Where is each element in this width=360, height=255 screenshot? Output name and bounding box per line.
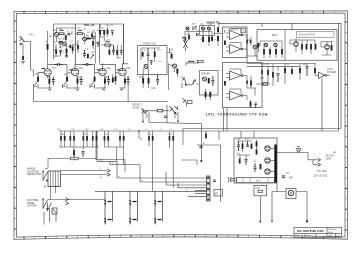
resistor R19 xyxy=(37,77,39,82)
terminal strip TS1 xyxy=(237,178,275,183)
tube V5 xyxy=(294,39,299,47)
capacitor C28 xyxy=(245,160,248,166)
wire aux line xyxy=(96,131,125,172)
capacitor C16 coupling xyxy=(54,63,63,66)
resistor R10c xyxy=(107,27,109,38)
wire V1 grid xyxy=(38,72,49,88)
resistor R66 xyxy=(96,131,98,147)
resistor R12b xyxy=(92,39,94,49)
diode D13 xyxy=(119,131,121,147)
label live xyxy=(100,169,102,180)
label V3 xyxy=(106,67,111,70)
tube V6 xyxy=(325,42,330,50)
transistor Q5 xyxy=(173,64,177,68)
socket V8 xyxy=(265,158,275,163)
potentiometer VR4 xyxy=(90,80,95,88)
diode D3 xyxy=(250,40,252,43)
svg-text:V1b: V1b xyxy=(79,67,84,70)
wire V4 grid xyxy=(116,73,119,76)
resistor R63 xyxy=(64,131,66,147)
capacitor C15 xyxy=(52,77,55,86)
box PA lower xyxy=(223,63,263,108)
capacitor C23 xyxy=(184,38,187,43)
svg-text:SELECTOR: SELECTOR xyxy=(27,172,41,176)
connector CN1 xyxy=(107,169,110,176)
node N1 xyxy=(138,130,142,141)
tube V1 xyxy=(42,68,52,78)
components D1 xyxy=(68,45,71,49)
label rect vals xyxy=(237,139,258,163)
wire jack left drop xyxy=(271,192,273,221)
svg-text:C14: C14 xyxy=(151,88,156,90)
wire plate rail xyxy=(48,64,128,73)
resistor R30 xyxy=(208,78,210,84)
label cn pins xyxy=(99,160,203,192)
svg-text:POWER: POWER xyxy=(327,71,336,74)
wire supply bus main xyxy=(59,130,338,132)
diode D11 xyxy=(92,131,94,147)
label V4 xyxy=(126,67,131,70)
resistor R20 xyxy=(48,76,50,88)
capacitor C9 xyxy=(120,50,123,55)
svg-text:SEND: SEND xyxy=(133,106,140,109)
diode D7 xyxy=(282,173,290,178)
capacitor C10b xyxy=(150,61,153,66)
diode D5 xyxy=(260,70,264,86)
label V2 xyxy=(79,67,84,70)
capacitor C35 xyxy=(254,103,257,108)
diode D2 xyxy=(246,37,248,46)
wire B+ drop V1 xyxy=(53,24,55,59)
svg-text:TR8 +24: TR8 +24 xyxy=(84,23,95,27)
resistor R52 xyxy=(272,72,274,86)
label lim xyxy=(327,68,336,74)
label PI xyxy=(201,72,210,75)
svg-text:V1a: V1a xyxy=(52,67,57,70)
wire fuse line xyxy=(48,159,96,169)
switch SW3 body xyxy=(52,198,69,215)
resistor R6b xyxy=(77,45,79,53)
resistor R46 xyxy=(301,40,303,54)
capacitor C9b xyxy=(97,42,100,47)
svg-text:FS2: FS2 xyxy=(256,188,261,190)
capacitor C22 xyxy=(199,146,202,148)
transistor Q7 xyxy=(203,77,207,81)
capacitor C30 xyxy=(82,152,85,158)
svg-text:100V: 100V xyxy=(326,158,332,161)
resistor R13 xyxy=(116,45,118,58)
resistor R11 xyxy=(103,30,105,35)
label hum xyxy=(263,64,308,66)
box bias xyxy=(200,26,215,36)
resistor R21 xyxy=(66,77,68,82)
label tube row values xyxy=(35,74,109,79)
node fuse end xyxy=(259,221,261,223)
svg-text:15V 100 150: 15V 100 150 xyxy=(314,175,328,178)
wire screen drop xyxy=(321,78,323,131)
wire screen rail xyxy=(247,63,316,65)
wire B+ drop V4 xyxy=(123,24,125,64)
svg-text:6.3V: 6.3V xyxy=(99,160,104,162)
jack J3 return xyxy=(170,106,178,115)
wire q5 mesh xyxy=(169,64,175,91)
resistor R39 xyxy=(257,43,259,52)
svg-text:150L TURBOSOUND TYP KOB: 150L TURBOSOUND TYP KOB xyxy=(206,112,269,116)
wire stage2 xyxy=(76,28,96,64)
capacitor C3 xyxy=(65,53,68,56)
jack J1 input xyxy=(20,37,31,46)
svg-text:7.5V 40W: 7.5V 40W xyxy=(316,170,327,173)
ground GND1 xyxy=(48,88,52,91)
potentiometer VR2 xyxy=(34,80,39,88)
ground GND3 xyxy=(102,88,106,91)
label out table xyxy=(314,170,328,178)
wire opto out xyxy=(167,48,172,53)
capacitor C8c xyxy=(111,31,114,36)
transistor Q1 xyxy=(54,33,58,37)
transistor Q12 xyxy=(264,43,267,46)
diode D12 xyxy=(104,131,106,147)
svg-text:CHK: CHK xyxy=(306,236,311,238)
capacitor C10 xyxy=(147,48,150,60)
capacitor C17 xyxy=(80,76,83,85)
tube V4 xyxy=(117,64,126,76)
wire right box stub xyxy=(262,23,292,29)
wire ts feed xyxy=(231,179,237,181)
wire v4 cathode drop xyxy=(127,85,129,102)
resistor R41 xyxy=(250,81,252,89)
potentiometer VR3 xyxy=(63,80,68,88)
resistor R18 xyxy=(176,69,178,78)
wire pa mid xyxy=(247,35,258,64)
resistor R47 xyxy=(306,44,308,50)
label title xyxy=(206,112,269,116)
svg-text:ON-OFF: ON-OFF xyxy=(27,205,37,208)
switch SW4 xyxy=(193,26,196,30)
connector pins CN3 xyxy=(318,158,321,166)
resistor R35 xyxy=(211,36,213,41)
junction cluster X1 xyxy=(59,41,63,44)
wire bias mesh xyxy=(185,23,223,37)
wire PA ground drops xyxy=(224,108,228,131)
wire jack bus xyxy=(272,183,307,192)
resistor R49 xyxy=(315,44,317,50)
resistor R25 xyxy=(112,74,114,83)
transistor Q3 xyxy=(83,37,87,41)
svg-text:DRN: DRN xyxy=(295,236,300,238)
wire signal line upper xyxy=(34,101,169,103)
diode D4 xyxy=(246,76,248,89)
resistor R9 xyxy=(87,54,89,58)
resistor R67 xyxy=(107,131,109,147)
resistor R62 xyxy=(260,164,262,169)
tube V3 xyxy=(97,64,106,76)
capacitor C11 xyxy=(156,75,159,85)
wire B+ rail preamp xyxy=(54,23,124,25)
resistor R73 xyxy=(250,100,252,108)
resistor R14 xyxy=(154,48,156,57)
wire bias rail xyxy=(247,65,300,67)
capacitor C29 xyxy=(254,163,257,172)
svg-text:R14 C11: R14 C11 xyxy=(106,25,115,27)
label PA xyxy=(228,29,238,32)
capacitor C27 xyxy=(246,141,249,147)
resistor R16 xyxy=(148,69,150,89)
resistor R32 xyxy=(209,92,211,100)
label d7 xyxy=(289,178,294,180)
resistor R17 xyxy=(171,54,173,59)
transistor Q11 xyxy=(253,45,257,49)
wire heater drop xyxy=(116,147,118,161)
resistor R43 xyxy=(269,49,271,54)
chassis bar xyxy=(274,145,277,183)
transistor Q8 xyxy=(186,27,189,30)
capacitor C26 xyxy=(237,141,240,151)
resistor R29 xyxy=(157,109,163,112)
svg-text:A.C.: A.C. xyxy=(256,179,261,183)
label preamp parts xyxy=(58,36,90,50)
wire pair bottoms xyxy=(59,147,124,150)
diode D14 xyxy=(148,131,150,146)
capacitor C8 xyxy=(112,45,115,55)
wire pa input xyxy=(186,62,199,85)
resistor R34 xyxy=(208,36,210,46)
resistor R42 xyxy=(263,49,265,54)
wire pa out xyxy=(247,76,270,101)
svg-text:V2b: V2b xyxy=(126,67,131,70)
socket V7 xyxy=(265,146,275,151)
capacitor C32 xyxy=(164,116,167,118)
wire fuse drop xyxy=(259,196,261,222)
wire v5 mesh xyxy=(290,40,315,52)
box rectifier xyxy=(234,138,277,183)
wire pi drop xyxy=(201,124,203,162)
resistor R5b xyxy=(72,44,74,54)
resistor R71 xyxy=(73,150,75,160)
svg-text:470R: 470R xyxy=(263,64,269,66)
wire heater bus 4 xyxy=(178,183,207,188)
diode D6 xyxy=(296,147,302,153)
wire mains pair xyxy=(45,169,107,175)
label TR8 xyxy=(84,23,95,27)
component L1 xyxy=(263,83,268,86)
resistor R44 xyxy=(275,49,277,54)
op-amp U3 xyxy=(226,69,247,80)
resistor R24 xyxy=(104,76,106,88)
svg-text:N: N xyxy=(140,138,142,141)
svg-text:1504: 1504 xyxy=(328,232,334,234)
svg-text:MASTER: MASTER xyxy=(187,62,197,65)
wire HT rail right xyxy=(218,22,341,24)
label selector xyxy=(27,167,41,177)
fuse F1 xyxy=(71,157,79,160)
wire lamp rail xyxy=(95,131,207,191)
label bus voltages xyxy=(56,129,173,131)
label bias top xyxy=(207,20,220,24)
transistor Q6 xyxy=(182,37,187,51)
op-amp U1 xyxy=(225,29,248,40)
svg-text:IN 1: IN 1 xyxy=(29,33,34,37)
resistor R65 xyxy=(86,131,88,147)
transformer T1 primary xyxy=(48,171,61,187)
resistor R12 xyxy=(101,41,114,46)
svg-text:EL34 OUTPUT: EL34 OUTPUT xyxy=(299,34,316,37)
resistor R2 xyxy=(59,30,64,35)
resistor R48 xyxy=(310,44,312,54)
wire bias mesh2 xyxy=(260,41,282,58)
resistor R33 xyxy=(202,36,204,42)
wire rail stub2 xyxy=(100,35,104,37)
node fx gnd1 xyxy=(142,108,144,122)
switch SW2 xyxy=(43,199,52,211)
resistor R45 xyxy=(281,49,283,54)
resistor R15 xyxy=(142,68,144,88)
resistor R56 xyxy=(314,68,316,76)
resistor R28 xyxy=(121,76,126,88)
wire fx link xyxy=(147,111,169,118)
svg-text:150L AMPLIFIER 150W: 150L AMPLIFIER 150W xyxy=(297,230,325,233)
wire opto internal xyxy=(141,48,160,66)
ground GND4 xyxy=(119,88,123,91)
resistor R59 xyxy=(239,159,241,164)
label V1 xyxy=(52,67,57,70)
resistor R53 xyxy=(284,68,286,84)
wire socket feeds xyxy=(219,131,254,140)
tone stack marks xyxy=(92,28,117,50)
jack J6 footswitch xyxy=(183,98,193,107)
capacitor C18 coupling xyxy=(83,63,92,66)
wire supply bus upper xyxy=(183,128,341,130)
label mains sw xyxy=(27,199,39,208)
box PA xyxy=(223,27,248,58)
resistor R69 xyxy=(152,131,154,191)
resistor R14b xyxy=(142,52,144,57)
connector hooks CN2 xyxy=(228,177,231,182)
resistor R57 xyxy=(242,141,244,152)
lamp LP3 xyxy=(154,191,163,224)
wire Q1 mesh xyxy=(54,28,76,42)
label preamp smudges xyxy=(49,28,96,54)
svg-text:TP: TP xyxy=(19,36,23,40)
transistor Q9 xyxy=(202,27,205,30)
jack J5 speaker xyxy=(286,189,296,199)
capacitor C2 xyxy=(68,33,69,36)
wire preamp extra xyxy=(54,40,78,57)
capacitor C4 xyxy=(93,37,96,39)
switch SW1 xyxy=(43,171,48,188)
capacitor C5 xyxy=(83,50,86,58)
op-amp U4 xyxy=(226,89,247,100)
resistor R36 xyxy=(217,27,219,32)
resistor R2b xyxy=(55,50,57,54)
wire jack right drop xyxy=(306,192,308,222)
box PI xyxy=(200,71,219,96)
svg-text:R26: R26 xyxy=(139,77,144,79)
capacitor C21 xyxy=(211,76,214,86)
node jack left end xyxy=(271,220,273,222)
label J1 xyxy=(19,33,35,40)
resistor R72 xyxy=(188,35,190,39)
label effects send xyxy=(133,104,143,110)
capacitor C34 xyxy=(205,131,207,138)
svg-text:1M: 1M xyxy=(35,74,38,76)
resistor R50 xyxy=(331,41,333,51)
node fx gnd2 xyxy=(177,120,179,122)
label tone top xyxy=(106,25,115,27)
tube V2 xyxy=(69,64,78,76)
resistor R13b xyxy=(109,50,111,55)
resistor R5 xyxy=(66,46,68,53)
resistor R31 xyxy=(205,89,207,100)
label FX1 xyxy=(143,43,156,46)
resistor R58 xyxy=(251,144,253,149)
resistor R27 xyxy=(115,76,117,85)
svg-text:DRG No: DRG No xyxy=(328,229,337,231)
svg-text:V2a: V2a xyxy=(106,67,111,70)
capacitor C31 xyxy=(197,33,199,36)
resistor R22 xyxy=(77,76,79,88)
label bias smudges xyxy=(186,24,217,42)
resistor R54 xyxy=(291,69,293,74)
wire B+ drop V3 xyxy=(99,24,101,64)
wire tone extra xyxy=(100,24,121,58)
resistor R70 xyxy=(172,131,174,188)
wire heater bus 1 xyxy=(97,161,207,178)
resistor R10 xyxy=(98,30,104,35)
wire return drop xyxy=(174,114,176,118)
box label strip xyxy=(297,32,335,38)
wire stage1 out xyxy=(54,46,60,56)
svg-text:8R: 8R xyxy=(215,193,218,195)
ground GND2 xyxy=(75,88,79,91)
resistor R55 xyxy=(299,68,301,80)
wire screen stubs xyxy=(262,64,315,73)
jack J2 send xyxy=(142,109,148,115)
component top link xyxy=(188,60,203,62)
resistor R61 xyxy=(256,150,258,155)
label trem vals xyxy=(142,50,162,63)
socket V9 xyxy=(265,169,275,174)
wire rect top xyxy=(237,140,257,159)
label right box xyxy=(272,34,316,38)
transistor Q13 xyxy=(274,43,277,46)
resistor R38 xyxy=(224,41,226,46)
svg-text:DRIVER: DRIVER xyxy=(201,72,210,75)
op-amp U2 xyxy=(226,43,247,54)
label pa in xyxy=(187,62,197,65)
capacitor C24 xyxy=(277,74,280,83)
transistor Q4 xyxy=(144,65,148,69)
svg-text:TREM OSC: TREM OSC xyxy=(143,43,156,46)
capacitor C33 xyxy=(213,180,216,182)
buffer U5 xyxy=(315,72,330,79)
resistor R64 xyxy=(73,131,75,147)
title block text xyxy=(295,229,340,238)
capacitor C20 xyxy=(127,76,130,85)
title block xyxy=(294,227,342,237)
resistor R40 xyxy=(224,81,226,86)
resistor R8 xyxy=(91,34,93,38)
capacitor C25 xyxy=(306,67,309,77)
resistor R4 xyxy=(46,31,49,69)
box aux1 xyxy=(214,190,222,197)
svg-text:16R: 16R xyxy=(289,178,294,180)
wire sw2 link xyxy=(44,200,105,225)
wire V2 grid xyxy=(67,73,77,88)
label a node xyxy=(203,142,205,145)
svg-text:R2 1k: R2 1k xyxy=(58,39,65,41)
resistor R7 xyxy=(86,38,90,40)
